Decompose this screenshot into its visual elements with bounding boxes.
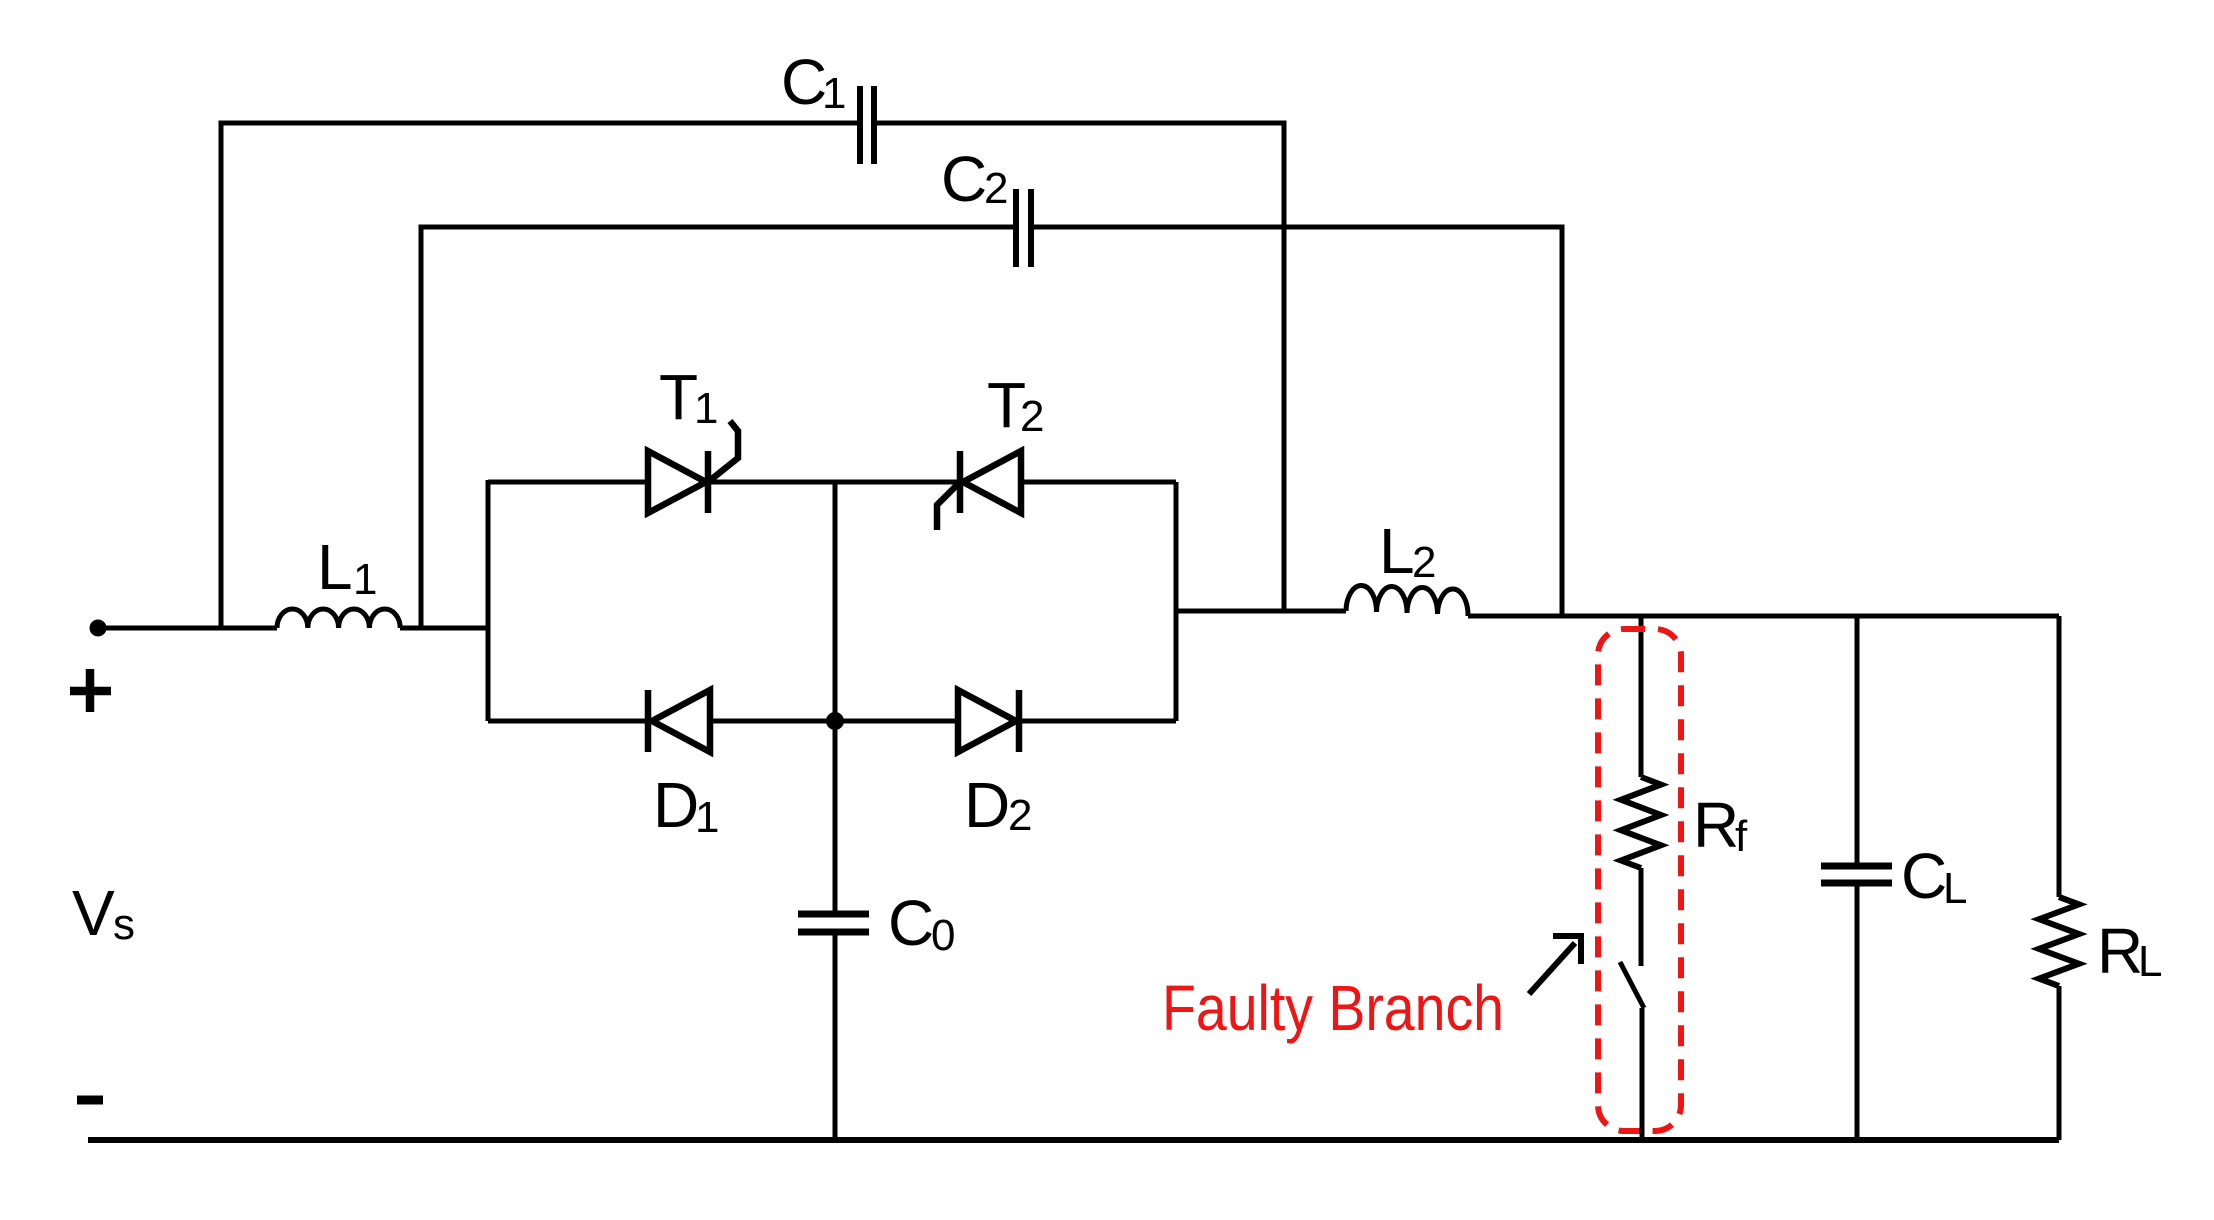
minus sign of source: [77, 1096, 103, 1105]
svg-text:D: D: [964, 769, 1010, 841]
svg-text:s: s: [113, 900, 135, 949]
resistor Rf: [1621, 777, 1661, 868]
wire CL to bottom rail: [1855, 886, 1860, 1140]
svg-text:C: C: [781, 46, 827, 118]
svg-text:2: 2: [1020, 392, 1044, 441]
svg-text:C: C: [941, 143, 987, 215]
wire bridge top rail: [488, 480, 1176, 485]
capacitor C1: [860, 86, 874, 164]
wire faulty branch upper: [1639, 616, 1644, 777]
wire bridge middle vertical upper: [833, 482, 838, 911]
svg-text:V: V: [72, 877, 115, 949]
wire C2 top run right of capacitor and right leg: [1033, 227, 1562, 616]
wire bridge left vertical: [486, 480, 491, 721]
wire bottom rail: [88, 1137, 2059, 1143]
svg-text:L: L: [1943, 864, 1967, 913]
svg-text:0: 0: [931, 911, 955, 960]
svg-text:R: R: [2097, 915, 2143, 987]
svg-text:f: f: [1735, 812, 1748, 861]
svg-text:L: L: [2138, 937, 2162, 986]
faulty branch dashed box: [1598, 629, 1681, 1131]
wire L2 to load rail: [1468, 614, 2059, 619]
svg-text:1: 1: [353, 555, 377, 604]
wire RL to bottom rail: [2057, 986, 2062, 1140]
resistor RL: [2039, 897, 2079, 986]
inductor L2: [1346, 585, 1468, 616]
wire bridge right vertical: [1174, 482, 1179, 721]
arrow to faulty branch: [1529, 936, 1581, 994]
wire switch to bottom rail: [1640, 1008, 1645, 1140]
wire C1 top run right of capacitor and right leg: [876, 123, 1284, 611]
wire C0 to bottom rail: [833, 935, 838, 1140]
plus sign of source: [70, 669, 111, 712]
svg-text:C: C: [1901, 840, 1947, 912]
svg-text:C: C: [888, 887, 934, 959]
wire CL branch upper: [1855, 616, 1860, 864]
wire bridge output to L2: [1176, 609, 1346, 614]
wire C1 top loop left leg and top run: [221, 123, 858, 629]
wire L1 to bridge: [400, 626, 488, 631]
svg-text:2: 2: [984, 164, 1008, 213]
svg-text:L: L: [1379, 515, 1415, 587]
thyristor T1: [648, 421, 738, 513]
node source positive terminal: [92, 622, 104, 634]
svg-text:2: 2: [1412, 538, 1436, 587]
svg-text:2: 2: [1008, 791, 1032, 840]
diode D1: [648, 690, 710, 752]
svg-text:D: D: [653, 769, 699, 841]
svg-text:1: 1: [822, 69, 846, 118]
wire Rf to switch: [1639, 868, 1644, 966]
capacitor CL: [1821, 866, 1892, 883]
capacitor C2: [1016, 189, 1031, 267]
wire source to L1: [97, 626, 277, 631]
wire RL branch upper: [2057, 616, 2062, 897]
svg-text:1: 1: [694, 384, 718, 433]
svg-text:Faulty Branch: Faulty Branch: [1162, 972, 1504, 1044]
svg-text:1: 1: [695, 793, 719, 842]
svg-text:L: L: [317, 531, 353, 603]
svg-text:T: T: [659, 361, 698, 433]
wire bridge bottom rail: [488, 719, 1176, 724]
node bridge middle junction: [829, 715, 842, 728]
capacitor C0: [798, 914, 869, 932]
switch blade: [1620, 962, 1644, 1008]
thyristor T2: [937, 451, 1021, 530]
svg-text:R: R: [1693, 789, 1739, 861]
wire C2 loop left leg and top run: [421, 227, 1014, 629]
inductor L1: [277, 609, 400, 628]
diode D2: [958, 690, 1019, 752]
